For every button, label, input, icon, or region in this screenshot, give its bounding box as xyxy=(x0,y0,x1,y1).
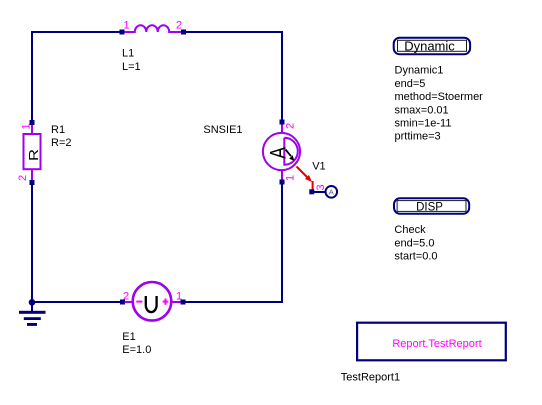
svg-text:L=1: L=1 xyxy=(122,61,141,73)
svg-text:Check: Check xyxy=(394,224,426,236)
svg-text:1: 1 xyxy=(124,20,130,32)
ammeter SNSIE1 body xyxy=(263,125,300,181)
svg-text:Dynamic1: Dynamic1 xyxy=(395,65,444,77)
wire: bottom-left segment from junction to E1 pin2 xyxy=(32,301,121,303)
svg-text:smin=1e-11: smin=1e-11 xyxy=(395,118,452,130)
svg-text:end=5.0: end=5.0 xyxy=(394,237,434,249)
svg-text:R: R xyxy=(27,149,42,161)
terminal L1 pin 1 xyxy=(120,30,125,35)
svg-text:2: 2 xyxy=(285,123,297,129)
svg-text:method=Stoermer: method=Stoermer xyxy=(395,91,484,103)
wire: V1 pin3 to indicator xyxy=(314,191,326,193)
svg-text:TestReport1: TestReport1 xyxy=(341,372,400,384)
svg-text:1: 1 xyxy=(285,175,297,181)
wire: left-bottom segment from R1 pin2 to ground junction xyxy=(31,185,33,302)
voltage sensor V1 red arrow xyxy=(297,167,313,191)
svg-text:end=5: end=5 xyxy=(395,78,426,90)
wire: bottom-right segment from E1 pin1 to SNSIE1 pin1 xyxy=(186,185,283,303)
svg-text:Dynamic: Dynamic xyxy=(404,39,455,54)
svg-text:L1: L1 xyxy=(122,48,134,60)
wire: top-left segment from L1 pin1 to R1 pin1 xyxy=(32,32,120,120)
svg-text:V1: V1 xyxy=(312,161,325,173)
resistor R1 body xyxy=(24,125,42,180)
svg-text:E1: E1 xyxy=(122,331,135,343)
voltage source E1 body xyxy=(125,282,182,321)
ground symbol xyxy=(19,302,46,326)
svg-text:2: 2 xyxy=(176,20,182,32)
inductor L1 coil xyxy=(125,25,182,32)
terminal E1 pin 2 xyxy=(120,300,125,305)
indicator bulb of V1 xyxy=(326,186,338,198)
terminal E1 pin 1 xyxy=(181,300,186,305)
terminal L1 pin 2 xyxy=(181,30,186,35)
svg-text:2: 2 xyxy=(17,175,29,181)
svg-text:2: 2 xyxy=(123,291,129,303)
terminal SNSIE1 pin 2 xyxy=(280,120,285,125)
junction node at ground xyxy=(29,299,36,306)
wire: top-right segment from L1 pin2 to SNSIE1 pin2 xyxy=(186,32,282,120)
terminal V1 pin 3 xyxy=(309,189,314,194)
terminal R1 pin 1 xyxy=(30,120,35,125)
svg-text:Report.TestReport: Report.TestReport xyxy=(392,338,481,350)
terminal R1 pin 2 xyxy=(30,180,35,185)
svg-text:start=0.0: start=0.0 xyxy=(394,251,437,263)
svg-text:R=2: R=2 xyxy=(51,137,72,149)
report block Report.TestReport box xyxy=(357,323,506,361)
svg-text:prttime=3: prttime=3 xyxy=(395,131,441,143)
svg-text:DISP: DISP xyxy=(416,202,443,214)
svg-text:A: A xyxy=(329,187,334,196)
svg-text:1: 1 xyxy=(21,123,33,129)
svg-text:smax=0.01: smax=0.01 xyxy=(395,104,449,116)
terminal SNSIE1 pin 1 xyxy=(280,180,285,185)
display task DISP box xyxy=(394,198,469,214)
svg-text:R1: R1 xyxy=(51,124,65,136)
simulation task Dynamic box xyxy=(394,38,470,55)
svg-text:SNSIE1: SNSIE1 xyxy=(203,124,242,136)
svg-text:E=1.0: E=1.0 xyxy=(122,344,151,356)
